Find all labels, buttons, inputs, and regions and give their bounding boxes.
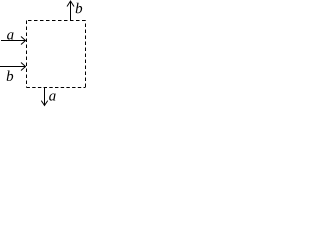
wire: input arrow a (left upper, rightward) [1,37,26,45]
block: dashed rectangle, top edge [27,20,86,22]
block: dashed rectangle, right edge [85,21,87,88]
label b (top output) [76,3,82,14]
label a (bottom output) [49,93,55,100]
block: dashed rectangle, bottom edge [27,87,86,89]
wire: output arrow b (top, upward) [67,1,74,21]
wire: input arrow b (left lower, rightward) [0,63,26,71]
block: dashed rectangle, left edge [26,21,28,88]
wire: output arrow a (bottom, downward) [41,88,47,106]
label b (left lower input) [7,70,13,81]
label a (left upper input) [7,32,13,39]
